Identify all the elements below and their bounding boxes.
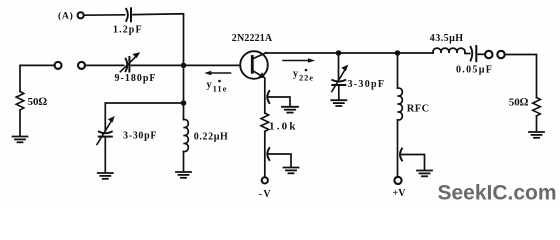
ground G5 xyxy=(284,168,299,174)
wire C8 to terminal xyxy=(478,53,485,55)
svg-text:SeekIC.com: SeekIC.com xyxy=(438,181,557,204)
junction node D xyxy=(336,50,342,56)
inductor L3 43.5uH xyxy=(433,48,465,53)
svg-text:-V: -V xyxy=(259,189,272,200)
wire C1 to top corner xyxy=(133,14,184,64)
ground G6 xyxy=(331,100,346,106)
terminal +V xyxy=(394,177,401,184)
ground G1 xyxy=(13,137,28,143)
svg-text:RFC: RFC xyxy=(407,103,430,114)
svg-text:2N2221A: 2N2221A xyxy=(232,33,273,44)
svg-text:3-30pF: 3-30pF xyxy=(123,130,157,141)
capacitor C8 0.05uF xyxy=(471,46,477,61)
terminal A xyxy=(78,12,84,18)
svg-text:22e: 22e xyxy=(299,73,314,83)
svg-text:50Ω: 50Ω xyxy=(509,96,529,108)
capacitor C6 3-30pF variable xyxy=(332,65,349,92)
resistor R1 50 ohm xyxy=(16,92,24,110)
wire node C to C3 branch xyxy=(105,103,183,131)
transistor Q1 2N2221A xyxy=(240,51,268,79)
feedthrough capacitor C7 xyxy=(400,149,425,171)
wire R1 to ground xyxy=(19,110,21,136)
feedthrough capacitor C4 xyxy=(267,91,290,106)
svg-text:11e: 11e xyxy=(213,83,228,93)
ground G4 xyxy=(282,107,298,113)
capacitor C1 1.2pF xyxy=(126,8,131,21)
wire C6 to ground xyxy=(338,86,340,100)
capacitor C2 9-180pF variable xyxy=(120,52,140,72)
capacitor C3 3-30pF variable xyxy=(97,116,115,144)
wire C3 to ground xyxy=(104,138,106,173)
svg-text:9-180pF: 9-180pF xyxy=(115,73,157,84)
ground G3 xyxy=(176,172,191,178)
node A label xyxy=(58,11,74,22)
terminal -V xyxy=(262,177,268,183)
label y11e xyxy=(207,80,228,94)
ground G7 xyxy=(417,171,432,177)
wire emitter down xyxy=(264,78,266,113)
wire RFC down to terminal xyxy=(397,120,399,177)
wire collector rail xyxy=(266,52,434,54)
svg-text:y: y xyxy=(207,80,212,91)
wire A to C1 xyxy=(84,14,124,16)
wire node E down xyxy=(397,53,399,88)
inductor L2 RFC xyxy=(398,88,403,120)
svg-text:1.0k: 1.0k xyxy=(269,121,298,133)
arrow y11e xyxy=(204,71,230,75)
feedthrough capacitor C5 xyxy=(267,148,291,167)
svg-text:y: y xyxy=(293,69,298,80)
wire L3 to C8 xyxy=(465,53,470,55)
wire node B down xyxy=(183,65,185,119)
wire C2 to node B xyxy=(131,64,240,66)
terminal output 1 xyxy=(485,51,492,58)
junction node B xyxy=(181,63,187,69)
junction node C xyxy=(181,100,187,106)
svg-text:+V: +V xyxy=(393,188,407,199)
ground G2 xyxy=(98,173,113,179)
wire R2 down xyxy=(264,131,266,177)
wire node D down xyxy=(338,53,340,79)
svg-text:1.2pF: 1.2pF xyxy=(113,24,143,35)
svg-text:50Ω: 50Ω xyxy=(28,96,48,108)
terminal input 1 xyxy=(55,62,62,69)
wire output corner xyxy=(505,55,537,98)
label y22e xyxy=(293,69,314,83)
terminal input 2 xyxy=(78,62,85,69)
wire R3 to ground xyxy=(536,116,538,132)
arrow y22e xyxy=(283,58,315,62)
wire input to C2 xyxy=(85,64,124,66)
svg-text:0.22µH: 0.22µH xyxy=(194,131,229,142)
svg-text:0.05µF: 0.05µF xyxy=(456,65,493,76)
inductor L1 0.22uH xyxy=(184,119,189,151)
resistor R3 50 ohm xyxy=(533,98,541,116)
ground G8 xyxy=(529,132,544,138)
wire left corner to 50 ohm xyxy=(20,65,55,91)
svg-text:3-30pF: 3-30pF xyxy=(348,79,386,90)
resistor R2 1.0k xyxy=(261,113,269,131)
terminal output 2 xyxy=(497,51,504,58)
svg-text:(A): (A) xyxy=(58,11,74,22)
wire L1 to ground xyxy=(183,152,185,172)
junction node E xyxy=(395,50,401,56)
svg-text:43.5µH: 43.5µH xyxy=(430,33,464,44)
